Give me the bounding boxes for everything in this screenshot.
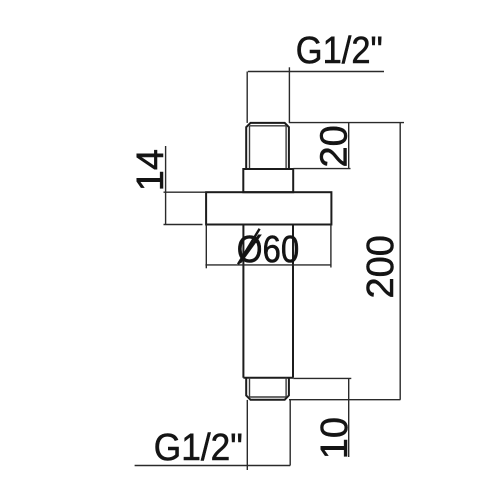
svg-text:G1/2": G1/2" <box>296 30 383 72</box>
dimension D60 <box>205 225 331 269</box>
bottom thread outline <box>246 378 289 400</box>
dimension 20 <box>289 123 404 169</box>
bottom G1/2 label leader line <box>135 400 291 470</box>
bottom thread inner lines <box>250 378 287 397</box>
top G1/2 label leader line <box>247 67 384 123</box>
svg-text:G1/2": G1/2" <box>154 427 243 469</box>
collar <box>243 169 293 192</box>
svg-text:20: 20 <box>313 125 355 167</box>
flange <box>206 192 331 224</box>
dimension 14 <box>164 146 206 225</box>
dimension 200 <box>399 123 401 400</box>
svg-text:14: 14 <box>130 149 172 191</box>
diameter slash extension <box>238 229 260 264</box>
svg-text:10: 10 <box>314 417 356 459</box>
top thread outline <box>246 123 289 169</box>
tube <box>243 225 293 378</box>
svg-text:200: 200 <box>360 235 402 298</box>
dimension 10 <box>289 378 400 457</box>
top thread inner lines <box>250 126 287 169</box>
